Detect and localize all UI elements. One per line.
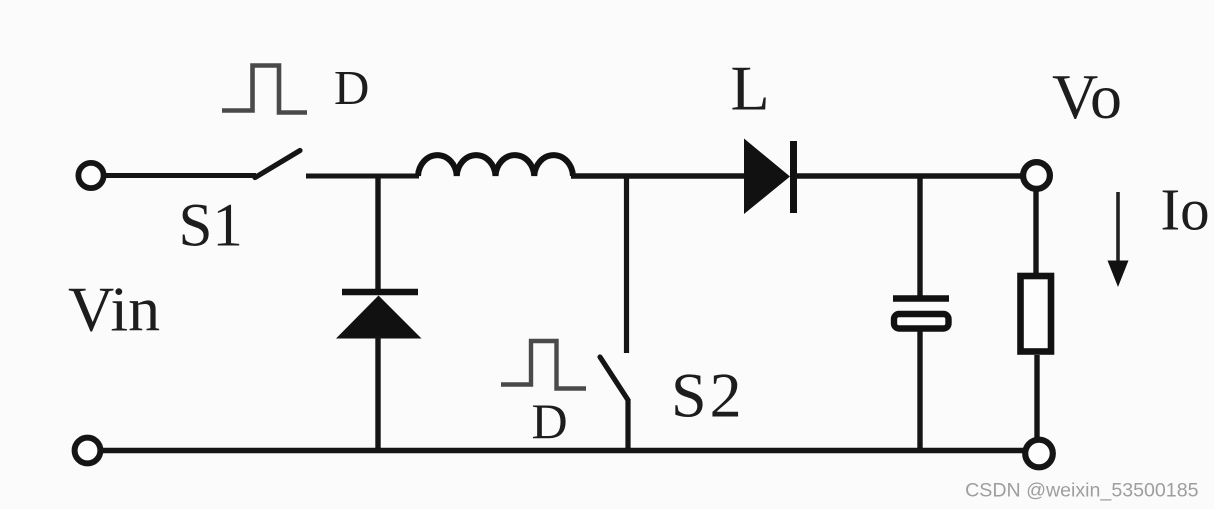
wire top rail after S1 [306, 174, 419, 179]
terminal bottom-left [75, 438, 101, 464]
svg-text:Io: Io [1161, 177, 1210, 243]
svg-text:D: D [532, 393, 568, 449]
wire bottom rail [101, 448, 1023, 453]
wire capacitor to bottom rail [917, 331, 922, 451]
wire node B down (S2 branch upper) [624, 176, 629, 353]
wire D1 to bottom rail [375, 336, 380, 451]
wire node A down (freewheel branch upper) [375, 176, 380, 291]
pulse waveform (S1 drive, duty D) [222, 66, 307, 113]
svg-text:Vin: Vin [68, 274, 160, 345]
pulse waveform (S2 drive, duty D) [501, 341, 586, 389]
switch S1 blade [255, 151, 300, 178]
wire S2 to bottom rail [625, 399, 630, 451]
inductor L (4 humps) [418, 155, 573, 176]
switch S2 blade [600, 357, 628, 400]
wire top rail left segment [104, 173, 256, 178]
diode D1 (pointing up) [336, 296, 422, 339]
svg-text:Vo: Vo [1052, 61, 1122, 132]
diode D2 (series, pointing right) [744, 139, 790, 215]
wire resistor to terminal [1034, 355, 1039, 441]
svg-text:S1: S1 [179, 193, 243, 260]
resistor R load [1021, 276, 1052, 352]
svg-text:D: D [334, 60, 369, 115]
wire top rail to resistor [1033, 188, 1038, 275]
svg-text:L: L [731, 53, 770, 124]
terminal top-right [1023, 162, 1050, 189]
svg-text:CSDN @weixin_53500185: CSDN @weixin_53500185 [965, 480, 1198, 502]
wire D2 to output [795, 173, 1022, 178]
terminal top-left [78, 163, 103, 188]
diode D1 cathode bar [342, 289, 418, 296]
wire node C down (capacitor branch upper) [917, 176, 922, 296]
capacitor C top plate [893, 295, 949, 302]
capacitor C bottom plate (hollow) [894, 314, 949, 329]
wire inductor to diode D2 [571, 173, 746, 178]
svg-text:S2: S2 [671, 360, 745, 431]
terminal bottom-right [1025, 440, 1053, 468]
Io arrow [1116, 192, 1120, 266]
